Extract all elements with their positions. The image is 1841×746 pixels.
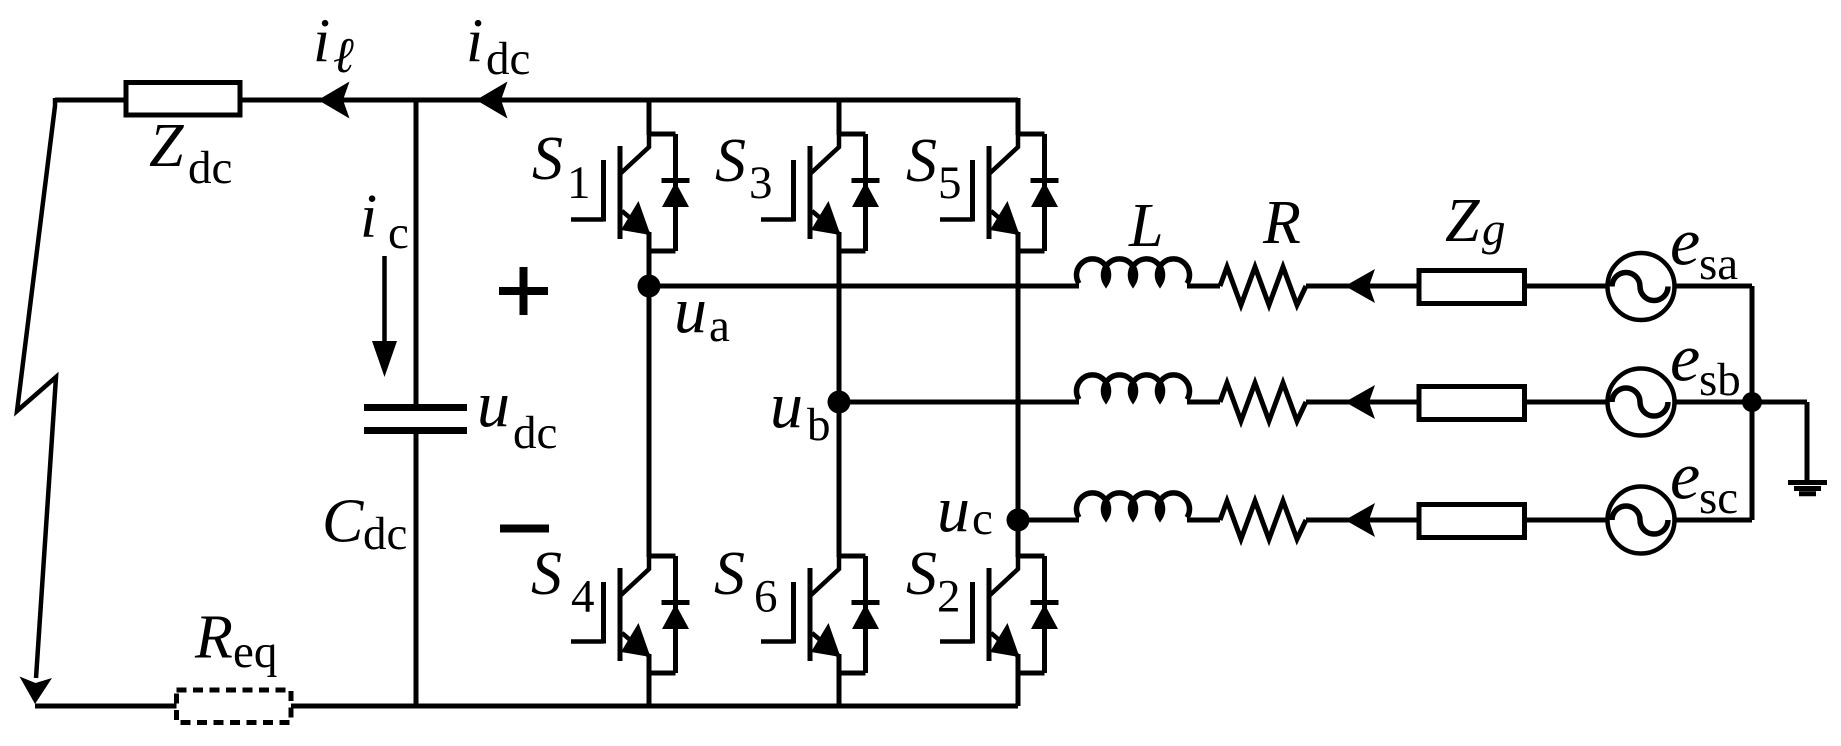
- transistor S6: [761, 555, 880, 674]
- svg-text:S: S: [714, 540, 745, 608]
- svg-text:i: i: [313, 8, 330, 76]
- resistor R phase a: [1220, 267, 1306, 305]
- transistor S5: [940, 133, 1059, 252]
- svg-text:i: i: [466, 8, 483, 76]
- phase a wire right: [1525, 284, 1606, 289]
- wire top bus: [55, 98, 1018, 103]
- phase c wire left: [1018, 518, 1079, 523]
- svg-text:R: R: [1262, 189, 1301, 257]
- phase b wire mid1: [1187, 400, 1220, 405]
- source e_sa: [1608, 253, 1675, 320]
- arrow bottom-left: [20, 677, 53, 705]
- svg-text:eq: eq: [233, 626, 277, 678]
- wire leg a lower: [647, 672, 652, 706]
- wire bottom bus: [35, 704, 1018, 709]
- inductor phase b: [1077, 375, 1190, 400]
- svg-text:c: c: [972, 493, 993, 545]
- phase a wire to bus: [1676, 284, 1752, 289]
- arrow phase b: [1345, 385, 1375, 419]
- resistor Zdc: [126, 83, 240, 116]
- wire leg c upper: [1016, 98, 1021, 135]
- wire leg a upper: [647, 98, 652, 135]
- svg-text:L: L: [1128, 192, 1163, 260]
- svg-text:3: 3: [749, 157, 773, 209]
- wire leg b upper: [837, 98, 842, 135]
- phase b wire left: [839, 400, 1079, 405]
- wire leg b middle: [837, 250, 842, 557]
- resistor Req dashed: [177, 690, 292, 723]
- node neutral: [1742, 392, 1762, 412]
- transistor S3: [761, 133, 880, 252]
- svg-text:sb: sb: [1699, 354, 1741, 406]
- phase a wire mid1: [1187, 284, 1220, 289]
- inductor L phase a: [1077, 259, 1190, 284]
- wire right bus: [1750, 286, 1755, 520]
- ground: [1788, 483, 1827, 494]
- arrow phase a: [1345, 269, 1375, 303]
- svg-text:u: u: [937, 473, 970, 546]
- svg-text:u: u: [770, 369, 803, 442]
- transistor S4: [571, 555, 690, 674]
- capacitor Cdc plate bottom: [364, 427, 467, 434]
- node u_a: [638, 275, 661, 298]
- node u_c: [1007, 509, 1030, 532]
- svg-text:Z: Z: [149, 112, 184, 180]
- wire dc-link upper: [414, 100, 419, 405]
- svg-text:ℓ: ℓ: [333, 27, 354, 83]
- node u_b: [828, 391, 851, 414]
- svg-text:6: 6: [754, 571, 778, 623]
- phase a wire left: [649, 284, 1079, 289]
- svg-text:1: 1: [567, 157, 591, 209]
- phase b wire mid2: [1306, 400, 1418, 405]
- svg-text:4: 4: [571, 571, 595, 623]
- phase a wire mid2: [1306, 284, 1418, 289]
- wire to ground: [1752, 402, 1807, 480]
- svg-text:Z: Z: [1445, 187, 1480, 255]
- wire leg b lower: [837, 672, 842, 706]
- svg-text:dc: dc: [486, 33, 530, 85]
- arrow phase c: [1345, 503, 1375, 537]
- arrow i_c: [382, 256, 387, 348]
- phase c wire mid1: [1187, 518, 1220, 523]
- wire leg c middle: [1016, 250, 1021, 557]
- svg-text:S: S: [906, 540, 937, 608]
- impedance Zg phase b: [1419, 387, 1525, 420]
- svg-text:sc: sc: [1699, 472, 1738, 524]
- inductor phase c: [1077, 493, 1190, 518]
- svg-text:e: e: [1670, 320, 1700, 396]
- transistor S1: [571, 133, 690, 252]
- wire leg c lower: [1016, 672, 1021, 706]
- svg-text:S: S: [715, 127, 746, 195]
- svg-text:R: R: [194, 604, 233, 672]
- svg-text:S: S: [531, 540, 562, 608]
- wire leg a middle: [647, 250, 652, 557]
- impedance Zg phase c: [1419, 505, 1525, 538]
- svg-text:S: S: [906, 127, 937, 195]
- source e_sb: [1608, 369, 1675, 436]
- phase c wire right: [1525, 518, 1606, 523]
- svg-text:sa: sa: [1699, 238, 1738, 290]
- svg-text:g: g: [1482, 204, 1506, 256]
- svg-text:C: C: [322, 488, 364, 556]
- phase b wire right: [1525, 400, 1606, 405]
- resistor phase c: [1220, 501, 1306, 539]
- label minus: [500, 525, 549, 533]
- phase c wire to bus: [1676, 518, 1752, 523]
- svg-text:dc: dc: [188, 142, 232, 194]
- capacitor Cdc plate top: [364, 404, 467, 411]
- svg-text:i: i: [360, 183, 377, 251]
- label plus: [499, 267, 548, 315]
- transistor S2: [940, 555, 1059, 674]
- phase c wire mid2: [1306, 518, 1418, 523]
- svg-text:b: b: [807, 399, 831, 451]
- svg-text:dc: dc: [513, 407, 557, 459]
- svg-text:5: 5: [938, 157, 962, 209]
- svg-text:c: c: [388, 207, 409, 259]
- source e_sc: [1608, 487, 1675, 554]
- svg-text:u: u: [477, 368, 510, 441]
- svg-text:e: e: [1670, 438, 1700, 514]
- svg-text:a: a: [709, 300, 730, 352]
- svg-text:2: 2: [937, 571, 961, 623]
- impedance Zg phase a: [1419, 271, 1525, 304]
- phase b wire to bus: [1676, 400, 1752, 405]
- wire left lightning break upper: [17, 98, 56, 678]
- svg-text:e: e: [1670, 204, 1700, 280]
- svg-text:dc: dc: [363, 508, 407, 560]
- arrow i_dc: [476, 82, 508, 119]
- resistor phase b: [1220, 383, 1306, 421]
- svg-text:S: S: [532, 125, 563, 193]
- wire dc-link lower: [414, 432, 419, 706]
- arrow i_l: [318, 82, 350, 119]
